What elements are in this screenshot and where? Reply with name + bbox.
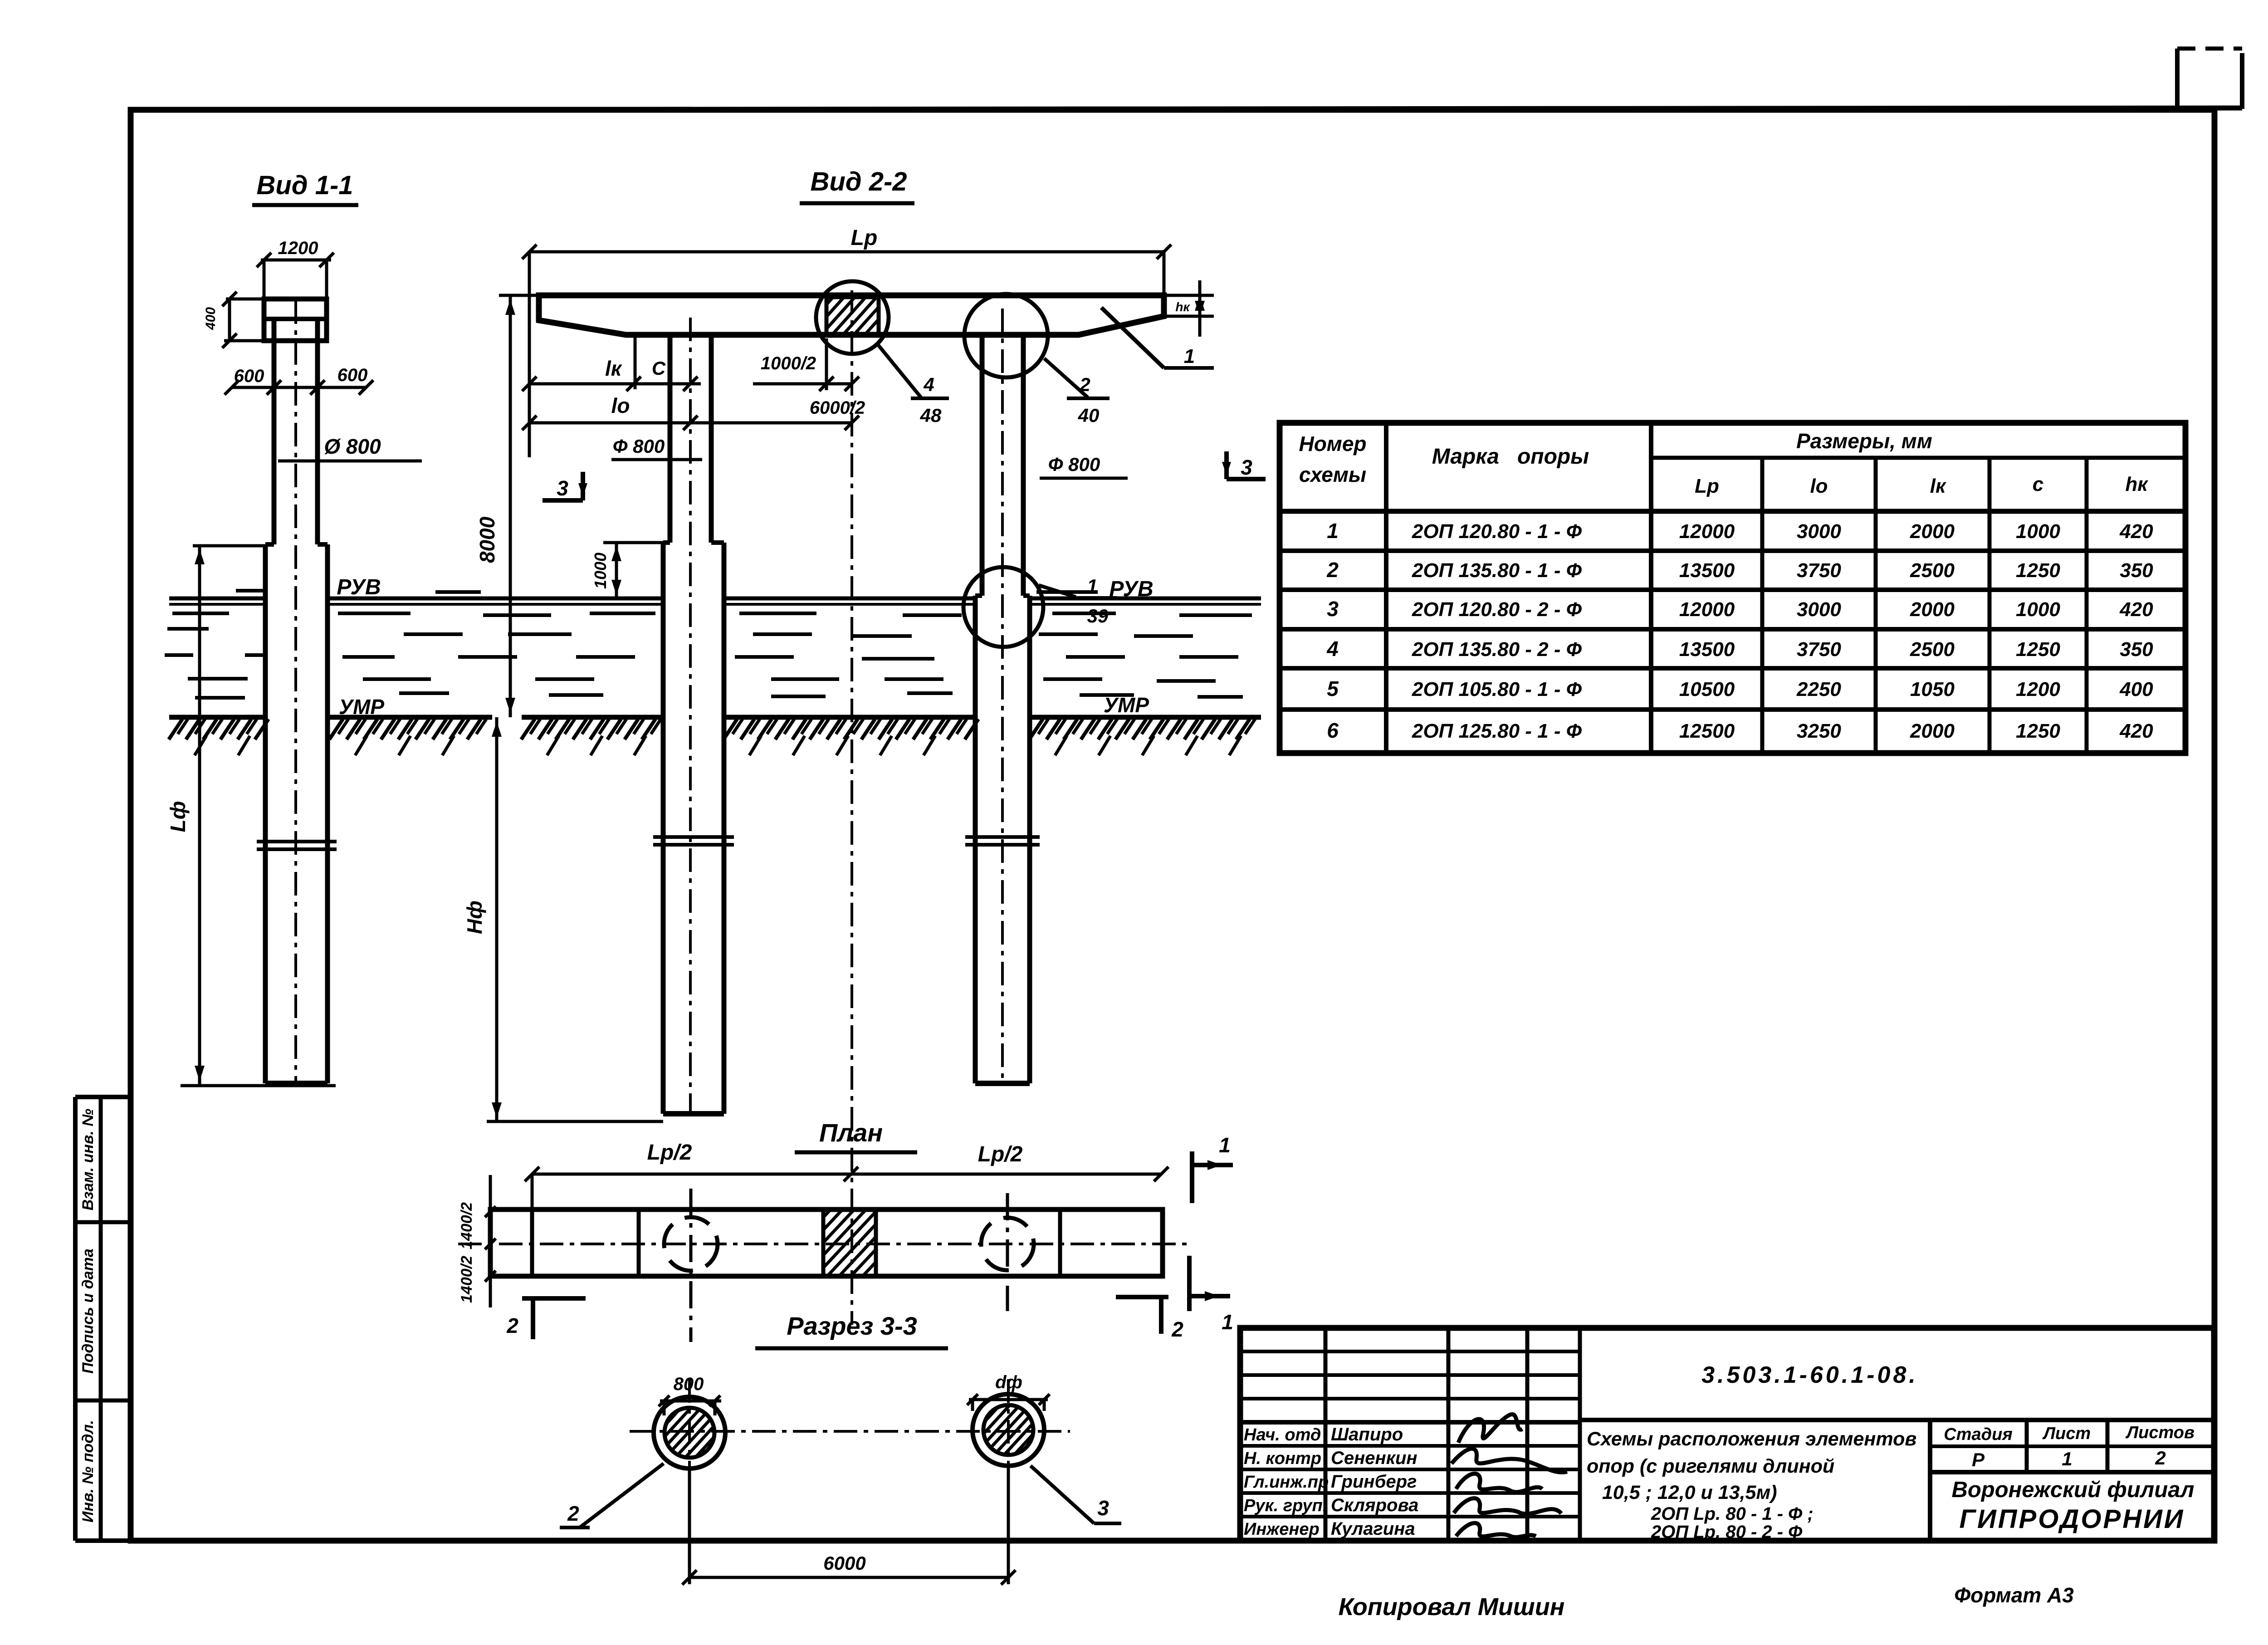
svg-text:2ОП Lр. 80 - 1 - Ф ;: 2ОП Lр. 80 - 1 - Ф ;	[1651, 1504, 1813, 1524]
svg-text:3750: 3750	[1797, 638, 1841, 661]
svg-text:48: 48	[920, 405, 942, 426]
svg-text:Р: Р	[1972, 1449, 1985, 1470]
svg-text:13500: 13500	[1679, 638, 1735, 661]
svg-text:Кулагина: Кулагина	[1331, 1519, 1415, 1539]
svg-text:2ОП 120.80 - 1 - Ф: 2ОП 120.80 - 1 - Ф	[1412, 520, 1582, 543]
svg-text:420: 420	[2119, 720, 2153, 742]
svg-text:Номер: Номер	[1299, 432, 1366, 455]
svg-text:420: 420	[2119, 520, 2153, 543]
svg-text:Марка опоры: Марка опоры	[1432, 445, 1589, 469]
svg-text:План: План	[819, 1118, 883, 1147]
svg-text:600: 600	[337, 365, 368, 385]
svg-text:1200: 1200	[278, 238, 318, 258]
svg-text:Стадия: Стадия	[1944, 1425, 2012, 1444]
svg-text:5: 5	[1327, 677, 1339, 700]
svg-text:350: 350	[2120, 559, 2153, 582]
svg-text:Лист: Лист	[2042, 1424, 2091, 1443]
svg-text:Lр/2: Lр/2	[647, 1141, 692, 1165]
svg-text:Рук. груп.: Рук. груп.	[1244, 1496, 1327, 1515]
svg-text:2000: 2000	[1910, 720, 1955, 742]
svg-text:2ОП Lр. 80 - 2 - Ф: 2ОП Lр. 80 - 2 - Ф	[1651, 1522, 1803, 1542]
svg-text:3: 3	[1327, 597, 1339, 621]
svg-text:8000: 8000	[475, 516, 499, 563]
svg-text:УМР: УМР	[339, 695, 384, 719]
svg-text:Размеры, мм: Размеры, мм	[1796, 429, 1932, 453]
svg-text:Воронежский филиал: Воронежский филиал	[1951, 1478, 2194, 1502]
svg-text:4: 4	[923, 374, 934, 395]
svg-text:1200: 1200	[2016, 678, 2060, 700]
svg-text:3000: 3000	[1797, 598, 1841, 621]
svg-text:3750: 3750	[1797, 559, 1841, 582]
svg-text:12000: 12000	[1679, 598, 1735, 621]
svg-text:lк: lк	[1930, 475, 1947, 497]
svg-text:2250: 2250	[1796, 678, 1841, 700]
svg-text:39: 39	[1087, 605, 1109, 627]
svg-text:2: 2	[506, 1314, 518, 1337]
svg-text:6000/2: 6000/2	[810, 398, 865, 418]
svg-text:Разрез 3-3: Разрез 3-3	[787, 1312, 917, 1340]
svg-text:схемы: схемы	[1299, 463, 1366, 486]
svg-text:Lф: Lф	[166, 801, 190, 832]
svg-text:2500: 2500	[1910, 638, 1955, 661]
svg-text:Инженер: Инженер	[1244, 1520, 1320, 1539]
svg-text:1: 1	[1327, 519, 1339, 543]
svg-text:РУВ: РУВ	[337, 575, 381, 599]
svg-text:800: 800	[674, 1374, 704, 1394]
svg-text:13500: 13500	[1679, 559, 1735, 582]
svg-text:Вид 1-1: Вид 1-1	[256, 171, 353, 200]
svg-text:10,5 ; 12,0 и 13,5м): 10,5 ; 12,0 и 13,5м)	[1602, 1482, 1777, 1503]
svg-text:350: 350	[2120, 638, 2153, 661]
svg-text:lо: lо	[1810, 475, 1828, 497]
svg-text:3: 3	[1241, 455, 1252, 479]
svg-text:2000: 2000	[1910, 598, 1955, 621]
svg-text:4: 4	[1326, 637, 1339, 661]
svg-text:10500: 10500	[1679, 678, 1735, 700]
svg-text:2: 2	[1171, 1317, 1183, 1341]
svg-text:2000: 2000	[1910, 520, 1955, 543]
svg-text:2: 2	[1326, 558, 1339, 582]
svg-text:1000: 1000	[2016, 598, 2060, 621]
svg-text:Подпись и дата: Подпись и дата	[79, 1248, 97, 1374]
svg-text:3250: 3250	[1797, 720, 1841, 742]
svg-text:Нф: Нф	[463, 901, 486, 934]
svg-text:hк: hк	[1175, 300, 1190, 314]
svg-text:РУВ: РУВ	[1109, 577, 1153, 601]
svg-text:1400/2: 1400/2	[458, 1202, 475, 1249]
svg-text:lо: lо	[611, 394, 630, 417]
svg-text:Гл.инж.пр: Гл.инж.пр	[1244, 1473, 1329, 1492]
svg-text:12500: 12500	[1679, 720, 1735, 742]
svg-text:2: 2	[567, 1502, 579, 1525]
svg-text:2ОП 120.80 - 2 - Ф: 2ОП 120.80 - 2 - Ф	[1412, 598, 1582, 621]
svg-text:2ОП 135.80 - 2 - Ф: 2ОП 135.80 - 2 - Ф	[1412, 638, 1582, 661]
svg-text:2ОП 105.80 - 1 - Ф: 2ОП 105.80 - 1 - Ф	[1412, 678, 1582, 700]
svg-text:2: 2	[1079, 374, 1090, 395]
svg-text:Шапиро: Шапиро	[1331, 1425, 1403, 1444]
svg-text:1000: 1000	[2016, 520, 2060, 543]
svg-text:12000: 12000	[1679, 520, 1735, 543]
svg-text:Lр: Lр	[1695, 475, 1719, 497]
svg-text:Формат А3: Формат А3	[1954, 1583, 2074, 1607]
svg-text:С: С	[652, 357, 666, 379]
svg-text:3.503.1-60.1-08.: 3.503.1-60.1-08.	[1701, 1362, 1918, 1388]
svg-text:1250: 1250	[2016, 638, 2060, 661]
svg-text:400: 400	[203, 307, 218, 330]
svg-text:1: 1	[2062, 1448, 2072, 1469]
svg-text:1: 1	[1219, 1133, 1231, 1157]
svg-text:1050: 1050	[1910, 678, 1955, 700]
svg-text:Lр: Lр	[851, 226, 878, 250]
svg-text:Ф 800: Ф 800	[613, 436, 665, 457]
svg-text:600: 600	[234, 366, 264, 386]
svg-text:hк: hк	[2125, 473, 2149, 495]
svg-text:dф: dф	[995, 1372, 1022, 1392]
svg-text:с: с	[2033, 473, 2043, 495]
svg-text:6: 6	[1327, 719, 1339, 742]
svg-text:Схемы расположения элементов: Схемы расположения элементов	[1587, 1428, 1916, 1450]
svg-text:Сененкин: Сененкин	[1331, 1448, 1417, 1468]
svg-text:Копировал Мишин: Копировал Мишин	[1339, 1593, 1565, 1621]
svg-text:Вид 2-2: Вид 2-2	[810, 167, 907, 196]
svg-text:1250: 1250	[2016, 720, 2060, 742]
svg-text:УМР: УМР	[1104, 693, 1149, 717]
svg-text:1250: 1250	[2016, 559, 2060, 582]
svg-text:400: 400	[2119, 678, 2153, 700]
svg-text:lк: lк	[605, 357, 623, 380]
svg-text:Инв. № подл.: Инв. № подл.	[79, 1420, 97, 1523]
svg-text:Lр/2: Lр/2	[978, 1142, 1023, 1166]
svg-text:420: 420	[2119, 598, 2153, 621]
svg-text:6000: 6000	[823, 1552, 865, 1574]
svg-text:Склярова: Склярова	[1331, 1495, 1418, 1515]
svg-text:1: 1	[1222, 1310, 1233, 1334]
svg-text:Ф 800: Ф 800	[1048, 454, 1100, 475]
svg-text:Ø 800: Ø 800	[324, 435, 381, 458]
svg-text:3: 3	[557, 476, 568, 500]
svg-text:3: 3	[1097, 1496, 1109, 1520]
svg-text:1: 1	[1184, 345, 1195, 367]
svg-text:2500: 2500	[1910, 559, 1955, 582]
svg-text:40: 40	[1078, 405, 1100, 426]
svg-text:Взам. инв. №: Взам. инв. №	[79, 1109, 97, 1211]
svg-text:2: 2	[2155, 1447, 2165, 1469]
svg-text:Нач. отд: Нач. отд	[1244, 1425, 1321, 1444]
svg-text:2ОП 135.80 - 1 - Ф: 2ОП 135.80 - 1 - Ф	[1412, 559, 1582, 582]
svg-text:Гринберг: Гринберг	[1331, 1472, 1417, 1492]
svg-text:3000: 3000	[1797, 520, 1841, 543]
svg-text:1400/2: 1400/2	[458, 1256, 475, 1303]
svg-text:2ОП 125.80 - 1 - Ф: 2ОП 125.80 - 1 - Ф	[1412, 720, 1582, 742]
svg-text:ГИПРОДОРНИИ: ГИПРОДОРНИИ	[1959, 1504, 2185, 1534]
svg-text:Листов: Листов	[2125, 1423, 2195, 1442]
svg-text:Н. контр: Н. контр	[1244, 1449, 1321, 1468]
svg-text:1000: 1000	[591, 553, 610, 589]
svg-text:1000/2: 1000/2	[761, 353, 816, 373]
svg-text:опор (с ригелями длиной: опор (с ригелями длиной	[1587, 1455, 1834, 1477]
